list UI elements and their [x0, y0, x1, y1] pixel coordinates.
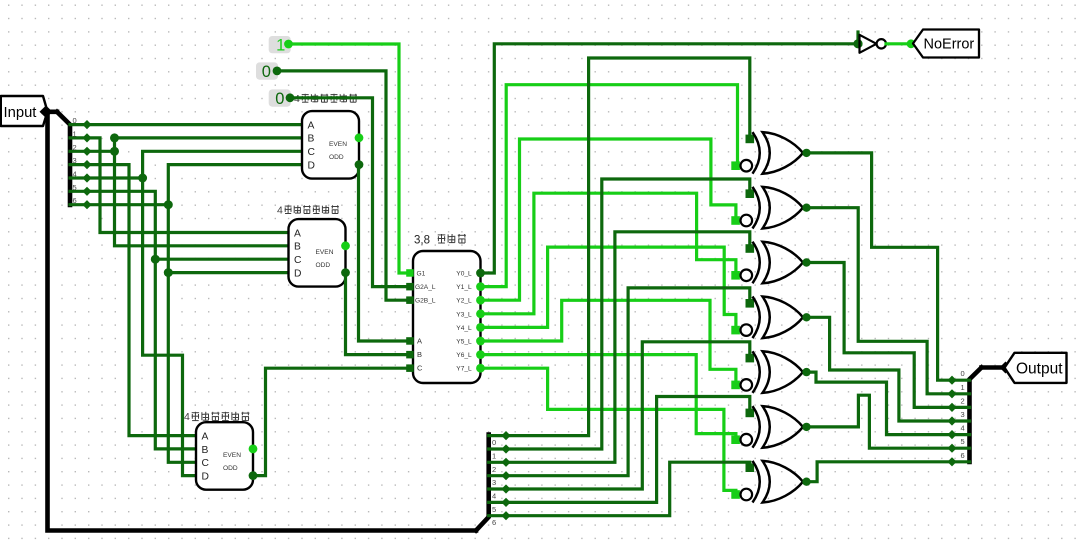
svg-text:Y5_L: Y5_L [456, 339, 472, 346]
svg-text:Y6_L: Y6_L [456, 352, 472, 359]
XOR gate G6 [731, 406, 810, 448]
wire bit5 row then down to P3.B with P2.C tap [87, 191, 199, 449]
wire XOR4 output to SP3 row3 [807, 317, 953, 421]
svg-text:G1: G1 [417, 271, 426, 278]
svg-text:0: 0 [275, 90, 284, 108]
svg-text:Y2_L: Y2_L [456, 298, 472, 305]
svg-text:3: 3 [73, 156, 77, 165]
splitter SP2 spine [476, 435, 489, 531]
wire SP3 to Output pin (black) [982, 365, 1005, 370]
XOR gate G3 [731, 242, 810, 284]
svg-text:0: 0 [961, 369, 965, 378]
wire const1 to decoder G1 (bright) [289, 44, 414, 273]
splitter SP1 branches 0-6 [70, 116, 92, 209]
wire bit6 from SP2 to XOR7 upper input [506, 462, 750, 516]
node decoder Y6_L pin [476, 350, 485, 359]
svg-text:4: 4 [73, 170, 77, 179]
node NoError pin dot [907, 39, 916, 48]
wire XOR5 output to SP3 row4 [807, 372, 953, 435]
wire XOR6 output to SP3 row5 [807, 395, 953, 448]
svg-text:Y1_L: Y1_L [456, 284, 472, 291]
wire XOR7 output to SP3 row6 [807, 462, 953, 482]
parity checker P2 box [289, 219, 350, 287]
svg-text:2: 2 [73, 143, 77, 152]
parity checker P1 box [302, 111, 363, 179]
svg-text:1: 1 [492, 452, 496, 461]
wire bit6 vertical P1.D to P3.C [168, 165, 305, 463]
svg-text:Input: Input [4, 105, 37, 121]
wire P2.C tap [155, 258, 291, 261]
svg-text:G2A_L: G2A_L [415, 284, 436, 291]
svg-text:C: C [308, 147, 316, 158]
svg-text:ODD: ODD [223, 465, 238, 472]
svg-text:4: 4 [184, 411, 190, 423]
wire XOR2 output to SP3 row1 [807, 208, 953, 394]
node output tip junction [1000, 362, 1012, 374]
node decoder Y4_L pin [476, 323, 485, 332]
constant 0 (a) [256, 62, 281, 81]
svg-text:4: 4 [961, 424, 965, 433]
svg-text:NoError: NoError [924, 37, 975, 53]
svg-text:ODD: ODD [316, 262, 331, 269]
svg-text:6: 6 [73, 196, 77, 205]
wire NOT input stub [856, 32, 859, 44]
svg-text:EVEN: EVEN [329, 141, 347, 148]
XOR gate G5 [731, 351, 810, 393]
node decoder Y5_L pin [476, 337, 485, 346]
input pin Input [1, 96, 48, 126]
output pin Output [1005, 353, 1067, 383]
svg-text:5: 5 [73, 183, 77, 192]
svg-text:ODD: ODD [329, 154, 344, 161]
svg-text:1: 1 [276, 36, 285, 54]
constant 0 (b) [269, 89, 295, 107]
wire Y5_L to XOR5 lower input (bright) [481, 300, 736, 385]
XOR gate G7 [731, 461, 810, 503]
svg-text:0: 0 [262, 63, 271, 81]
parity checker P3 box [196, 422, 257, 490]
wire P1.ODD to decoder A [359, 165, 414, 341]
svg-text:2: 2 [961, 396, 965, 405]
svg-text:4: 4 [492, 492, 496, 501]
svg-text:Y3_L: Y3_L [456, 311, 472, 318]
svg-text:4: 4 [277, 205, 283, 217]
parity checker P1 (4-bit) label [294, 93, 357, 105]
node decoder Y3_L pin [476, 309, 485, 318]
splitter SP3 branches 0-6 [947, 369, 969, 466]
svg-text:D: D [294, 268, 301, 279]
wire bit5 from SP2 to XOR6 upper input [506, 397, 750, 503]
svg-text:Y4_L: Y4_L [456, 325, 472, 332]
svg-text:5: 5 [492, 505, 496, 514]
node bit4 junction [138, 174, 147, 183]
node decoder Y7_L pin [476, 364, 485, 373]
svg-text:1: 1 [73, 129, 77, 138]
wire bit1 row then down to P2.A [87, 138, 292, 233]
wire input bus to splitter1 (black) [44, 110, 57, 115]
wire NOT output to NoError (bright) [886, 42, 911, 45]
wire P2.ODD to decoder B [345, 273, 413, 355]
wire Y0_L up to NoError NOT gate [481, 44, 857, 273]
node bit6 junction [164, 200, 173, 209]
svg-text:B: B [202, 445, 209, 456]
svg-text:A: A [308, 120, 315, 131]
wire P3.ODD to decoder C [253, 368, 414, 475]
node decoder Y0_L pin [476, 269, 485, 278]
svg-text:G2B_L: G2B_L [415, 298, 436, 305]
wire bit2 row to junction [87, 150, 115, 153]
wire const0b to decoder G2A [290, 98, 413, 287]
node decoder Y2_L pin [476, 296, 485, 305]
svg-text:0: 0 [73, 116, 77, 125]
wire bit3 row then down to P3.A [87, 165, 199, 436]
svg-text:5: 5 [961, 437, 965, 446]
svg-text:Output: Output [1016, 361, 1063, 378]
splitter SP3 spine [970, 368, 982, 463]
svg-text:6: 6 [961, 451, 965, 460]
svg-text:C: C [202, 458, 210, 469]
wire Y4_L to XOR4 lower input (bright) [481, 247, 736, 330]
node bit5-P2C junction [151, 255, 160, 264]
XOR gate G2 [731, 187, 810, 229]
svg-text:D: D [202, 471, 209, 482]
wire P2.D tap [168, 271, 291, 274]
XOR gate G4 [731, 297, 810, 339]
node bit2 junction upper [110, 133, 119, 142]
svg-text:2: 2 [492, 465, 496, 474]
wire input bus down-left vertical (black) [48, 112, 477, 531]
svg-text:A: A [294, 228, 301, 239]
output pin NoError [913, 30, 979, 58]
svg-text:EVEN: EVEN [223, 452, 241, 459]
svg-text:D: D [308, 160, 315, 171]
wire Y7_L to XOR7 lower input (bright) [481, 368, 736, 494]
wire bit2 down-branch to P2.B [115, 151, 292, 246]
wire bit4 row [87, 176, 143, 179]
svg-text:0: 0 [492, 438, 496, 447]
svg-text:A: A [202, 431, 209, 442]
svg-text:B: B [417, 350, 422, 359]
constant 1 [269, 36, 293, 54]
node input tip junction [40, 106, 53, 119]
wire Y3_L to XOR3 lower input (bright) [481, 193, 736, 314]
svg-text:Y7_L: Y7_L [456, 366, 472, 373]
svg-text:EVEN: EVEN [316, 249, 334, 256]
wire Y1_L to XOR1 lower input (bright) [481, 85, 738, 287]
wire Y6_L to XOR6 lower input (bright) [481, 355, 736, 440]
NOT gate U2 [860, 35, 887, 53]
svg-text:3: 3 [492, 478, 496, 487]
wire XOR3 output to SP3 row2 [807, 263, 953, 408]
decoder U1 (3:8) box [406, 251, 480, 383]
svg-text:A: A [417, 337, 422, 346]
node decoder Y1_L pin [476, 282, 485, 291]
parity checker P2 label [277, 205, 339, 217]
svg-text:B: B [308, 134, 315, 145]
wire Y2_L to XOR2 lower input (bright) [481, 139, 736, 300]
wire bit1 from SP2 to XOR2 upper input [506, 179, 750, 449]
wire bit4 vertical P1.C to P3.D with jog [143, 151, 305, 475]
splitter SP1 spine [57, 112, 70, 205]
XOR gate G1 [731, 132, 810, 174]
wire bit6 row [87, 203, 168, 206]
wire bit3 from SP2 to XOR4 upper input [506, 288, 750, 476]
splitter SP2 branches 0-6 [489, 431, 511, 527]
decoder U1 label 3,8 [414, 234, 466, 247]
wire bit0 row to P1.A [87, 123, 302, 126]
wire bit2 up-branch to P1.B [115, 138, 306, 151]
node bit2 junction [110, 147, 119, 156]
svg-text:6: 6 [492, 518, 496, 527]
node NOT input junction [853, 39, 862, 48]
svg-text:C: C [417, 364, 423, 373]
svg-text:Y0_L: Y0_L [456, 271, 472, 278]
svg-text:C: C [294, 255, 302, 266]
svg-text:3,8: 3,8 [414, 235, 430, 247]
svg-text:1: 1 [961, 383, 965, 392]
wire XOR1 output to SP3 row0 [807, 153, 953, 380]
wire bit2 from SP2 to XOR3 upper input [506, 232, 750, 462]
svg-text:B: B [294, 242, 301, 253]
node bit6-P2D junction [164, 268, 173, 277]
parity checker P3 label [184, 411, 249, 423]
wire const0a to decoder G2B [277, 71, 413, 300]
wire bit4 from SP2 to XOR5 upper input [506, 342, 750, 489]
svg-text:3: 3 [961, 410, 965, 419]
wire bit0 from SP2 to XOR1 upper input [506, 58, 750, 436]
